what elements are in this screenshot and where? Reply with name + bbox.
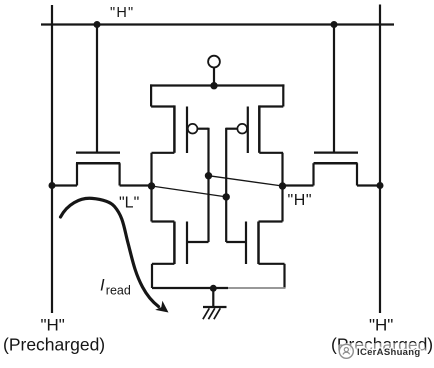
wire: VDD rail xyxy=(150,84,284,86)
junction: word line to right access gate xyxy=(331,21,338,28)
transistor N1 (left NMOS of cross-coupled inverter) xyxy=(152,222,209,289)
wire: ground rail (left black segment) xyxy=(152,287,228,289)
junction: left gate rail / cross-coupling wire xyxy=(205,172,212,179)
VDD terminal (open circle and stem) xyxy=(208,56,220,86)
junction: right bit line / Q2 xyxy=(377,182,384,189)
node H junction dot xyxy=(279,182,286,189)
ground symbol xyxy=(203,288,227,319)
wire: cross-coupling diagonal from node L to right gate rail xyxy=(152,186,227,197)
arrowhead of I_read arrow xyxy=(155,301,168,313)
watermark logo circle xyxy=(339,344,353,358)
transistor P2 (right PMOS of cross-coupled inverter) xyxy=(226,84,283,153)
transistor Q2 (right access NMOS) xyxy=(283,153,382,186)
svg-text:"L": "L" xyxy=(119,195,139,212)
wire: word line (top horizontal) xyxy=(41,23,394,25)
svg-text:"H": "H" xyxy=(110,5,134,21)
transistor N2 (right NMOS of cross-coupled inverter) xyxy=(226,222,284,289)
watermark band xyxy=(336,343,426,359)
wire: right access transistor gate lead xyxy=(333,25,335,152)
junction: left bit line / Q1 source xyxy=(49,182,56,189)
junction: right gate rail / cross-coupling wire xyxy=(223,193,230,200)
wire: left access transistor gate lead xyxy=(96,25,98,152)
svg-text:"H": "H" xyxy=(288,192,313,209)
wire: right inverter input rail (gate rail, connects to node L) xyxy=(225,128,227,242)
wire: left inverter output rail (node L side) xyxy=(150,153,152,222)
wire: right inverter output rail (node H side) xyxy=(281,153,283,222)
svg-text:"H": "H" xyxy=(41,316,65,335)
transistor P1 (left PMOS of cross-coupled inverter) xyxy=(151,84,208,153)
node L junction dot xyxy=(148,182,155,189)
svg-text:"H": "H" xyxy=(369,316,393,335)
wire: cross-coupling diagonal from left gate rail to node H xyxy=(209,176,283,186)
svg-text:(Precharged): (Precharged) xyxy=(3,334,105,354)
wire: right bit line xyxy=(379,5,381,314)
svg-text:I: I xyxy=(100,277,105,295)
junction: ground rail / ground stem xyxy=(210,285,217,292)
junction: VDD stem / VDD rail xyxy=(210,82,217,89)
wire: left bit line xyxy=(51,5,53,313)
arrow: I_read current path (curved arrow) xyxy=(61,198,159,306)
svg-text:read: read xyxy=(106,284,131,298)
wire: ground rail (right faded segment) xyxy=(228,287,286,289)
svg-text:ICerAShuang: ICerAShuang xyxy=(357,347,420,358)
transistor Q1 (left access NMOS) xyxy=(51,153,153,186)
wire: left inverter input rail (gate rail, connects to node H) xyxy=(207,128,209,242)
junction: word line to left access gate xyxy=(94,21,101,28)
